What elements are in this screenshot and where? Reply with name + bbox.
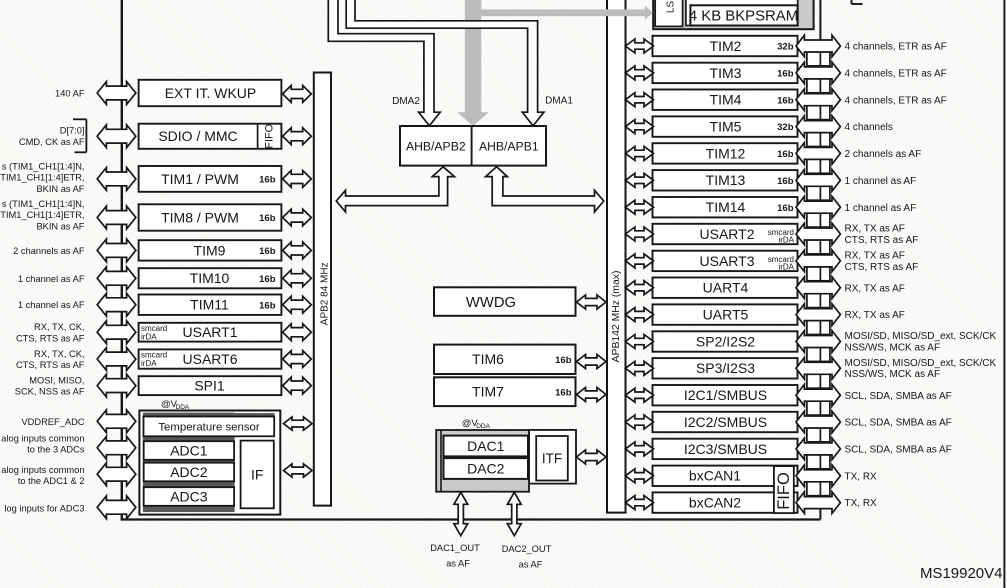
svg-text:DDA: DDA — [476, 423, 490, 430]
pin ladder connector TIM2-TIM3 — [807, 52, 830, 66]
LSE oscillator box (cropped) — [655, 0, 682, 26]
svg-text:I2C3/SMBUS: I2C3/SMBUS — [684, 441, 767, 457]
arrow DAC2_OUT — [507, 492, 521, 535]
svg-text:16b: 16b — [555, 387, 572, 398]
block USART1 — [139, 323, 282, 342]
svg-text:s (TIM1_CH1[1:4]N,: s (TIM1_CH1[1:4]N, — [2, 199, 85, 209]
arrow SDIO to APB2 — [283, 128, 312, 145]
svg-text:log inputs for ADC3: log inputs for ADC3 — [4, 504, 84, 514]
svg-text:16b: 16b — [777, 69, 794, 80]
wire right pin ladder top segment — [819, 0, 821, 40]
block SP2/I2S2 — [653, 331, 798, 351]
svg-text:SP2/I2S2: SP2/I2S2 — [696, 333, 755, 349]
arrow I2C2/SMBUS to APB1 — [625, 415, 653, 429]
arrow TIM12 to pins — [796, 143, 840, 165]
wire bottom bus horizontal — [121, 518, 821, 520]
svg-text:irDA: irDA — [141, 332, 157, 341]
arrow ADC common to pins — [97, 436, 136, 459]
BKPSRAM outer frame — [686, 0, 798, 26]
svg-text:16b: 16b — [259, 175, 276, 186]
svg-text:RX, TX as AF: RX, TX as AF — [845, 224, 905, 235]
pin ladder connector TIM4-TIM5 — [807, 106, 830, 120]
svg-text:TIM4: TIM4 — [710, 92, 742, 108]
svg-text:TIM2: TIM2 — [710, 38, 742, 54]
svg-text:irDA: irDA — [141, 359, 157, 368]
block bxCAN1 — [653, 466, 798, 486]
svg-text:DAC1: DAC1 — [467, 438, 505, 454]
pin ladder connector SP2/I2S2-SP3/I2S3 — [807, 347, 830, 361]
svg-text:TIM7: TIM7 — [472, 384, 504, 400]
svg-text:TIM3: TIM3 — [710, 65, 742, 81]
block EXT IT. WKUP — [139, 80, 282, 106]
svg-text:RX, TX, CK,: RX, TX, CK, — [34, 349, 84, 359]
svg-text:16b: 16b — [777, 95, 794, 106]
bus APB2 84 MHz vertical bar — [314, 73, 331, 506]
svg-text:SPI1: SPI1 — [194, 378, 225, 394]
wire bottom bus elbow up to pin ladder — [819, 509, 821, 520]
svg-text:MS19920V4: MS19920V4 — [920, 565, 1003, 582]
block SP3/I2S3 — [653, 358, 798, 378]
svg-text:2 channels as AF: 2 channels as AF — [845, 149, 922, 160]
svg-text:RX, TX, CK,: RX, TX, CK, — [34, 322, 84, 332]
arrow SPI1 to pins — [97, 374, 136, 397]
svg-text:32b: 32b — [777, 122, 794, 133]
svg-text:SCL, SDA, SMBA as AF: SCL, SDA, SMBA as AF — [845, 445, 952, 456]
arrow DAC1_OUT — [454, 492, 468, 535]
block ADC3 — [144, 487, 234, 506]
svg-text:bxCAN1: bxCAN1 — [689, 468, 741, 484]
svg-text:FIFO: FIFO — [775, 472, 793, 510]
svg-text:16b: 16b — [777, 176, 794, 187]
svg-text:2 channels as AF: 2 channels as AF — [13, 246, 85, 256]
block ITF — [536, 436, 568, 481]
svg-text:CTS, RTS as AF: CTS, RTS as AF — [16, 333, 85, 343]
block TIM14 — [653, 197, 798, 217]
block ADC outer box — [139, 411, 280, 515]
arrow EXT IT to pins — [97, 82, 136, 105]
arrow I2C2/SMBUS to pins — [796, 411, 840, 433]
arrow TIM8 to APB2 — [283, 209, 312, 226]
arrow AHB/APB1 bridge to APB1 bus — [486, 167, 604, 212]
svg-text:USART2: USART2 — [700, 226, 755, 242]
pin ladder connector TIM5-TIM12 — [807, 132, 830, 146]
pin ladder connector USART3-UART4 — [807, 267, 830, 281]
block TIM1 / PWM — [139, 166, 282, 192]
arrow VDDREF to pins — [97, 410, 136, 433]
block TIM10 — [139, 268, 282, 288]
svg-text:TIM1_CH1[1:4]ETR,: TIM1_CH1[1:4]ETR, — [0, 210, 84, 220]
arrow TIM13 to APB1 — [625, 173, 653, 187]
pin ladder connector I2C3/SMBUS-bxCAN1 — [807, 455, 830, 469]
svg-text:16b: 16b — [555, 355, 572, 366]
arrow I2C3/SMBUS to pins — [796, 438, 840, 460]
arrow TIM5 to pins — [796, 116, 840, 138]
svg-text:CMD, CK as AF: CMD, CK as AF — [19, 137, 85, 147]
block TIM9 — [139, 240, 282, 260]
arrow TIM9 to pins — [97, 239, 136, 262]
svg-text:1 channel as AF: 1 channel as AF — [18, 274, 85, 284]
arrow ADC IF to APB2 — [284, 464, 313, 477]
block I2C3/SMBUS — [653, 439, 798, 459]
svg-text:TIM9: TIM9 — [194, 242, 226, 258]
block TIM6 — [434, 345, 576, 374]
svg-text:VDDREF_ADC: VDDREF_ADC — [21, 417, 84, 427]
grey AHB system bus vertical to AHB/APB bridges — [465, 0, 482, 113]
arrow USART1 to pins — [97, 321, 136, 344]
svg-text:16b: 16b — [259, 300, 276, 311]
svg-text:irDA: irDA — [778, 262, 794, 271]
arrow bxCAN1 to APB1 — [625, 469, 653, 483]
svg-text:DAC2_OUT: DAC2_OUT — [502, 544, 552, 554]
arrow bxCAN2 to APB1 — [625, 496, 653, 510]
arrow TIM14 to pins — [796, 196, 840, 218]
svg-text:I2C2/SMBUS: I2C2/SMBUS — [684, 414, 767, 430]
svg-text:as AF: as AF — [446, 559, 470, 569]
arrow TIM8 to pins — [97, 206, 136, 229]
arrow USART3 to APB1 — [625, 254, 653, 268]
svg-text:TIM1 / PWM: TIM1 / PWM — [161, 171, 239, 187]
svg-text:ADC3: ADC3 — [170, 488, 208, 504]
block TIM7 — [434, 377, 576, 406]
svg-text:TIM13: TIM13 — [706, 172, 746, 188]
svg-text:UART5: UART5 — [703, 307, 749, 323]
svg-text:D[7:0]: D[7:0] — [60, 125, 85, 135]
arrow USART3 to pins — [796, 250, 840, 272]
block SPI1 — [139, 376, 282, 395]
arrow DAC to APB1 — [577, 450, 607, 464]
block Temperature sensor — [144, 417, 275, 437]
block I2C2/SMBUS — [653, 412, 798, 432]
svg-text:EXT IT. WKUP: EXT IT. WKUP — [165, 85, 257, 101]
arrow USART6 to pins — [97, 348, 136, 371]
svg-text:BKIN as AF: BKIN as AF — [36, 184, 84, 194]
svg-text:TIM12: TIM12 — [706, 145, 746, 161]
pin ladder connector TIM12-TIM13 — [807, 159, 830, 173]
block TIM5 — [653, 116, 798, 136]
svg-text:140 AF: 140 AF — [55, 89, 85, 99]
arrow TIM1 to pins — [97, 168, 136, 191]
arrow USART2 to pins — [796, 223, 840, 245]
block SDIO / MMC — [139, 124, 282, 149]
svg-text:TIM10: TIM10 — [190, 270, 230, 286]
svg-text:USART1: USART1 — [183, 324, 238, 340]
arrow ADC temp row to APB2 — [284, 417, 313, 430]
svg-text:MOSI/SD, MISO/SD_ext, SCK/CK: MOSI/SD, MISO/SD_ext, SCK/CK — [845, 358, 997, 369]
svg-text:16b: 16b — [259, 274, 276, 285]
arrow TIM10 to pins — [97, 267, 136, 290]
block TIM8 / PWM — [139, 204, 282, 230]
block ADC1 — [144, 441, 234, 460]
svg-text:SP3/I2S3: SP3/I2S3 — [696, 360, 755, 376]
bus APB1 42 MHz vertical bar — [607, 0, 626, 513]
block USART3 — [653, 251, 798, 271]
arrow ADC3 inputs to pins — [97, 496, 136, 519]
arrow TIM7 to APB1 — [577, 388, 607, 402]
svg-text:APB2 84 MHz: APB2 84 MHz — [320, 262, 331, 325]
block ADC IF — [241, 441, 274, 509]
svg-text:DAC2: DAC2 — [467, 461, 505, 477]
arrow SP2/I2S2 to APB1 — [625, 335, 653, 349]
svg-text:ADC1: ADC1 — [170, 442, 208, 458]
pin ladder connector TIM14-USART2 — [807, 213, 830, 227]
svg-text:AHB/APB1: AHB/APB1 — [479, 140, 539, 154]
arrow SDIO to pins — [97, 125, 136, 148]
block AHB/APB2 and AHB/APB1 bridges — [400, 126, 546, 166]
svg-text:TIM14: TIM14 — [706, 199, 746, 215]
block USART6 — [139, 349, 282, 368]
pin ladder connector I2C2/SMBUS-I2C3/SMBUS — [807, 428, 830, 442]
svg-text:ADC2: ADC2 — [170, 464, 208, 480]
block ADC2 — [144, 463, 234, 482]
pin group bracket remnant (top right) — [851, 0, 853, 4]
arrow SPI1 to APB2 — [283, 377, 312, 394]
arrow AHB/APB2 bridge to APB2 bus — [336, 167, 454, 212]
block TIM13 — [653, 170, 798, 190]
bracket D[7:0] pin group — [85, 119, 87, 152]
svg-text:RX, TX as AF: RX, TX as AF — [845, 283, 905, 294]
arrow UART4 to pins — [796, 277, 840, 299]
svg-text:4 channels, ETR as AF: 4 channels, ETR as AF — [845, 42, 947, 53]
arrow TIM14 to APB1 — [625, 200, 653, 214]
svg-text:CTS, RTS as AF: CTS, RTS as AF — [16, 360, 85, 370]
svg-text:CTS, RTS as AF: CTS, RTS as AF — [845, 235, 919, 246]
svg-text:CTS, RTS as AF: CTS, RTS as AF — [845, 262, 919, 273]
svg-text:DAC1_OUT: DAC1_OUT — [430, 543, 480, 553]
block 4 KB BKPSRAM — [690, 5, 797, 25]
block DAC2 — [444, 458, 529, 479]
arrow TIM3 to APB1 — [625, 66, 653, 80]
grey bus branch arrow to backup domain — [473, 9, 645, 16]
svg-text:s (TIM1_CH1[1:4]N,: s (TIM1_CH1[1:4]N, — [2, 161, 85, 171]
svg-text:4 KB BKPSRAM: 4 KB BKPSRAM — [689, 9, 798, 25]
svg-text:bxCAN2: bxCAN2 — [689, 495, 741, 511]
arrow TIM3 to pins — [796, 62, 840, 84]
block TIM12 — [653, 143, 798, 163]
block DAC ITF outer frame — [529, 430, 576, 484]
arrow TIM11 to pins — [97, 293, 136, 316]
DAC container inner left line — [440, 430, 442, 492]
block USART2 — [653, 224, 798, 244]
pin ladder connector UART4-UART5 — [807, 294, 830, 308]
svg-text:APB142 MHz (max): APB142 MHz (max) — [611, 271, 622, 363]
block DAC1 — [444, 436, 529, 457]
svg-text:1 channel as AF: 1 channel as AF — [18, 300, 85, 310]
arrow UART5 to pins — [796, 304, 840, 326]
arrow I2C3/SMBUS to APB1 — [625, 442, 653, 456]
svg-text:16b: 16b — [259, 246, 276, 257]
block TIM3 — [653, 63, 798, 83]
svg-text:TIM11: TIM11 — [190, 297, 229, 313]
svg-text:SCK, NSS as AF: SCK, NSS as AF — [15, 387, 85, 397]
arrow SP3/I2S3 to APB1 — [625, 361, 653, 375]
arrow I2C1/SMBUS to pins — [796, 384, 840, 406]
svg-text:as AF: as AF — [519, 560, 543, 570]
arrow TIM4 to APB1 — [625, 93, 653, 107]
arrow TIM2 to pins — [796, 35, 840, 57]
svg-text:USART6: USART6 — [183, 351, 238, 367]
arrow TIM9 to APB2 — [283, 242, 312, 259]
pin ladder connector TIM3-TIM4 — [807, 79, 830, 93]
arrow TIM5 to APB1 — [625, 120, 653, 134]
svg-text:SCL, SDA, SMBA as AF: SCL, SDA, SMBA as AF — [845, 418, 952, 429]
arrow UART4 to APB1 — [625, 281, 653, 295]
arrow TIM13 to pins — [796, 170, 840, 192]
arrow UART5 to APB1 — [625, 308, 653, 322]
svg-text:USART3: USART3 — [700, 253, 755, 269]
RTC box bottom edge (cropped) — [686, 1, 798, 3]
svg-text:LS: LS — [666, 1, 677, 14]
svg-text:TX, RX: TX, RX — [845, 498, 878, 509]
svg-text:16b: 16b — [259, 213, 276, 224]
svg-text:TIM6: TIM6 — [472, 351, 504, 367]
wire DMA1 stream to AHB/APB1 — [346, 0, 544, 126]
arrow TIM2 to APB1 — [625, 39, 653, 53]
svg-text:TX, RX: TX, RX — [845, 471, 878, 482]
svg-text:16b: 16b — [777, 149, 794, 160]
svg-text:alog inputs common: alog inputs common — [1, 433, 84, 443]
pin ladder connector USART2-USART3 — [807, 240, 830, 254]
wire DMA2 stream to AHB/APB2 — [328, 0, 440, 126]
svg-text:MOSI/SD, MISO/SD_ext, SCK/CK: MOSI/SD, MISO/SD_ext, SCK/CK — [845, 331, 997, 342]
backup domain grey container — [653, 0, 813, 29]
svg-text:BKIN as AF: BKIN as AF — [36, 222, 84, 232]
block I2C1/SMBUS — [653, 385, 798, 405]
svg-text:4 channels, ETR as AF: 4 channels, ETR as AF — [845, 95, 947, 106]
svg-text:16b: 16b — [777, 203, 794, 214]
arrow TIM1 to APB2 — [283, 171, 312, 188]
block bxCAN FIFO — [774, 466, 794, 513]
svg-text:WWDG: WWDG — [466, 295, 516, 311]
block WWDG — [434, 287, 576, 316]
arrow TIM6 to APB1 — [577, 355, 607, 369]
arrow TIM11 to APB2 — [283, 296, 312, 313]
wire left GPIO bus vertical — [121, 0, 123, 520]
svg-text:TIM1_CH1[1:4]ETR,: TIM1_CH1[1:4]ETR, — [0, 173, 84, 183]
svg-text:4 channels: 4 channels — [845, 122, 893, 133]
arrow TIM12 to APB1 — [625, 146, 653, 160]
svg-text:NSS/WS, MCK as AF: NSS/WS, MCK as AF — [845, 342, 941, 353]
svg-text:32b: 32b — [777, 42, 794, 53]
svg-text:alog inputs common: alog inputs common — [1, 465, 84, 475]
pin ladder connector TIM13-TIM14 — [807, 186, 830, 200]
svg-text:TIM5: TIM5 — [710, 119, 742, 135]
arrow USART2 to APB1 — [625, 227, 653, 241]
ADC dark inner strip — [143, 413, 234, 512]
arrow TIM4 to pins — [796, 89, 840, 111]
svg-text:I2C1/SMBUS: I2C1/SMBUS — [684, 387, 767, 403]
svg-text:TIM8 / PWM: TIM8 / PWM — [161, 209, 239, 225]
arrow bxCAN1 to pins — [796, 465, 840, 487]
svg-text:AHB/APB2: AHB/APB2 — [406, 140, 466, 154]
block TIM4 — [653, 90, 798, 110]
svg-text:to the ADC1 & 2: to the ADC1 & 2 — [18, 476, 85, 486]
svg-text:4 channels, ETR as AF: 4 channels, ETR as AF — [845, 69, 947, 80]
svg-text:MOSI, MISO,: MOSI, MISO, — [29, 375, 84, 385]
arrow TIM10 to APB2 — [283, 270, 312, 287]
block UART5 — [653, 304, 798, 324]
arrow ADC12 common to pins — [97, 463, 136, 486]
block TIM11 — [139, 295, 282, 315]
arrow bxCAN2 to pins — [796, 492, 840, 514]
pin ladder connector UART5-SP2/I2S2 — [807, 320, 830, 334]
arrow I2C1/SMBUS to APB1 — [625, 388, 653, 402]
svg-text:IF: IF — [251, 466, 263, 482]
pin ladder connector SP3/I2S3-I2C1/SMBUS — [807, 374, 830, 388]
svg-text:1 channel as AF: 1 channel as AF — [845, 203, 917, 214]
svg-text:ITF: ITF — [542, 451, 562, 466]
svg-text:UART4: UART4 — [703, 280, 749, 296]
svg-text:NSS/WS, MCK as AF: NSS/WS, MCK as AF — [845, 369, 941, 380]
pin ladder connector I2C1/SMBUS-I2C2/SMBUS — [807, 401, 830, 415]
svg-text:DMA2: DMA2 — [392, 96, 420, 107]
svg-text:irDA: irDA — [778, 236, 794, 245]
svg-text:1 channel as AF: 1 channel as AF — [845, 176, 917, 187]
block TIM2 — [653, 36, 798, 56]
arrow EXT IT to APB2 — [283, 86, 312, 103]
svg-text:FIFO: FIFO — [263, 124, 275, 149]
arrow SP3/I2S3 to pins — [796, 358, 840, 380]
svg-text:SCL, SDA, SMBA as AF: SCL, SDA, SMBA as AF — [845, 391, 952, 402]
figure right border — [1003, 0, 1005, 588]
svg-text:DMA1: DMA1 — [545, 96, 573, 107]
svg-text:RX, TX as AF: RX, TX as AF — [845, 310, 905, 321]
block bxCAN2 — [653, 492, 798, 512]
svg-text:RX, TX as AF: RX, TX as AF — [845, 250, 905, 261]
block UART4 — [653, 278, 798, 298]
svg-text:Temperature sensor: Temperature sensor — [158, 422, 260, 434]
svg-text:SDIO / MMC: SDIO / MMC — [158, 128, 237, 144]
svg-text:to the 3 ADCs: to the 3 ADCs — [27, 445, 85, 455]
arrow USART1 to APB2 — [283, 324, 312, 341]
pin ladder connector bxCAN1-bxCAN2 — [807, 482, 830, 496]
arrow USART6 to APB2 — [283, 351, 312, 368]
arrow SP2/I2S2 to pins — [796, 331, 840, 353]
block DAC grey container — [436, 430, 529, 492]
arrow WWDG to APB1 — [577, 295, 607, 309]
